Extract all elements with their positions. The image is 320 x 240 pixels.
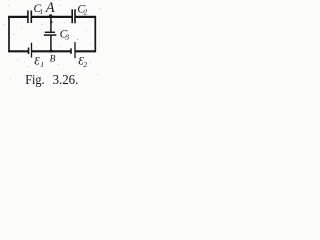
battery E1 [29,43,32,58]
svg-text:2: 2 [84,9,88,17]
capacitor C2 [72,9,75,23]
svg-text:A: A [45,0,55,16]
wire left edge [8,16,10,52]
svg-text:2: 2 [83,60,87,69]
node B junction dot [49,49,52,52]
svg-text:1: 1 [40,60,44,69]
svg-text:3: 3 [64,32,69,41]
wire bottom-middle segment [32,50,72,52]
svg-text:B: B [50,54,56,64]
node A junction dot [49,14,52,17]
wire top-left segment [8,16,28,18]
scan speckles (decorative) [3,5,100,79]
wire middle branch lower [50,35,52,51]
wire top-right segment [75,16,96,18]
capacitor C1 [28,10,31,23]
svg-text:3.26.: 3.26. [53,72,79,87]
wire top-middle segment [31,16,72,18]
svg-text:Fig.: Fig. [25,72,44,87]
wire middle branch upper [50,16,52,32]
ink bump on middle wire [51,21,52,23]
battery E2 [71,42,75,58]
wire bottom-left segment [8,50,28,52]
wire bottom-right segment [75,50,96,52]
capacitor C3 [44,32,57,35]
svg-text:1: 1 [40,8,44,16]
wire right edge [94,16,96,52]
